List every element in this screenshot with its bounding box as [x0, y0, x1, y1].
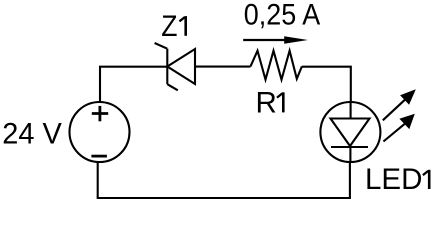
svg-text:LED: LED [365, 163, 422, 196]
svg-text:R: R [256, 86, 277, 119]
svg-text:Z: Z [161, 10, 177, 43]
svg-text:24 V: 24 V [2, 118, 62, 150]
svg-text:0,25 A: 0,25 A [244, 0, 321, 31]
